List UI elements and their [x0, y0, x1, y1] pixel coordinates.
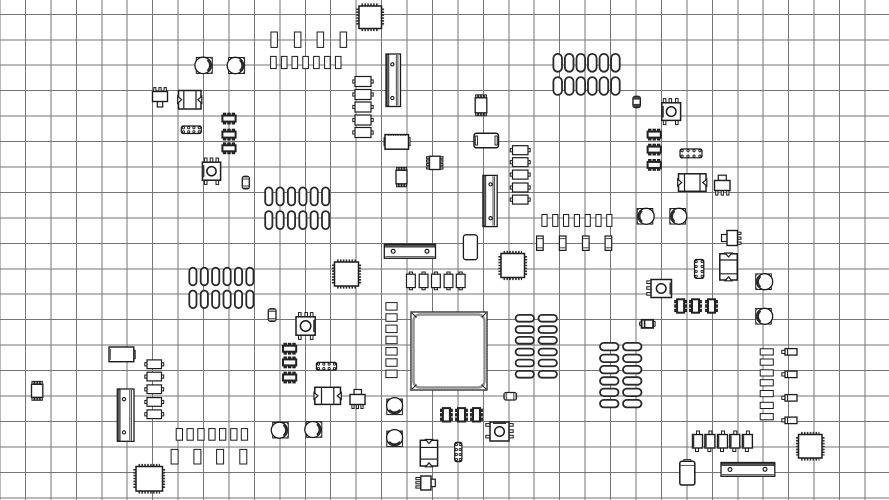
- resistor R44 (0603): [760, 402, 773, 408]
- resistor R8 (0805): [353, 77, 373, 87]
- connector J2 (8-pad footprint): [680, 149, 702, 158]
- IC U5 (QFP-32): [797, 433, 823, 459]
- capacitor C3 (electrolytic): [637, 208, 654, 224]
- resistor R22 (0805): [145, 385, 164, 394]
- diode D6 (MELF): [633, 96, 640, 107]
- IC U16 (SOT-23-6): [675, 299, 687, 312]
- capacitor C18 (0805): [510, 170, 530, 179]
- IC U1 (QFP-32): [358, 5, 383, 30]
- resistor R37 (0603): [386, 359, 397, 367]
- resistor R32 (0603): [386, 303, 397, 311]
- connector J10 (shielded): [721, 463, 775, 477]
- capacitor C10 (electrolytic): [387, 430, 403, 447]
- resistor R35 (0603): [386, 336, 397, 344]
- IC U22 (SOIC-8): [475, 95, 487, 116]
- transistor Q1 (SOT-223, pins up): [153, 88, 168, 107]
- resistor R15 (0603): [564, 215, 569, 227]
- crystal Y2 (cylindrical vertical): [463, 235, 477, 260]
- connector J15 (2x6 pad array): [600, 343, 642, 408]
- switch SW1 (tactile): [202, 158, 220, 184]
- capacitor C15 (0805): [340, 32, 347, 47]
- regulator Q3 (SOT-223, pins down): [350, 390, 365, 409]
- capacitor C9 (electrolytic): [387, 398, 403, 415]
- resistor R6 (0603): [325, 56, 331, 68]
- diode D11 (SOD): [782, 349, 797, 356]
- capacitor C16 (0805): [510, 146, 530, 155]
- capacitor C38 (tantalum polarized): [742, 431, 752, 452]
- diode D3 (molded package): [314, 387, 341, 404]
- switch SW5 (tactile): [647, 280, 672, 298]
- resistor R19 (0603): [607, 215, 612, 227]
- capacitor C23 (1206): [583, 236, 590, 250]
- capacitor C27 (tantalum): [217, 449, 224, 464]
- IC U8 (SOT-23-6): [222, 129, 235, 140]
- capacitor C36 (tantalum polarized): [718, 431, 728, 452]
- capacitor C34 (tantalum polarized): [693, 431, 703, 452]
- capacitor C37 (tantalum polarized): [730, 431, 740, 452]
- resistor R1 (0603): [271, 56, 277, 68]
- connector J1 (8-pad footprint): [181, 126, 201, 134]
- IC U18 (SOT-23-6): [706, 299, 718, 312]
- capacitor C35 (tantalum polarized): [705, 431, 715, 452]
- capacitor C7 (electrolytic): [271, 422, 288, 438]
- resistor R40 (0603): [760, 359, 773, 365]
- resistor R43 (0603): [760, 391, 773, 397]
- resistor R45 (0603): [760, 414, 773, 420]
- resistor R14 (0603): [553, 215, 558, 227]
- diode D4 (molded package): [720, 253, 738, 281]
- IC U4 (QFP-32): [135, 465, 164, 492]
- connector J12 (2x6 pad array): [189, 268, 253, 308]
- resistor R30 (0603): [231, 429, 237, 441]
- resistor R42 (0603): [760, 380, 773, 386]
- IC U23 (SOIC-8): [396, 167, 407, 187]
- connector J13 (2x6 pad array): [265, 187, 329, 229]
- resistor R41 (0603): [760, 370, 773, 376]
- IC U11 (SOT-23-6): [648, 144, 661, 155]
- transistor Q2 (SOT-223, pins down): [715, 175, 731, 195]
- transistor Q4 (SOT-89, pins right): [722, 231, 742, 246]
- resistor R31 (0603): [241, 429, 247, 441]
- connector J4 (8-pad footprint): [695, 260, 704, 279]
- IC U15 (SOT-23-6): [283, 372, 296, 383]
- resistor R3 (0603): [292, 56, 298, 68]
- resistor R2 (0603): [281, 56, 287, 68]
- diode D8 (MELF): [268, 309, 276, 322]
- resistor R26 (0603): [187, 429, 193, 441]
- resistor R25 (0603): [176, 429, 182, 441]
- switch SW4 (tactile): [486, 422, 513, 441]
- capacitor C22 (1206): [559, 236, 566, 250]
- diode D5 (molded package): [420, 440, 437, 467]
- diode D12 (SOD): [782, 371, 797, 378]
- capacitor C13 (0805): [294, 32, 301, 47]
- resistor R34 (0603): [386, 325, 397, 333]
- resistor R5 (0603): [314, 56, 320, 68]
- capacitor C30 (0805): [419, 272, 428, 290]
- IC U25 (SOIC-8): [427, 156, 444, 169]
- IC U7 (SOT-23-6): [222, 113, 235, 124]
- resistor R33 (0603): [386, 314, 397, 322]
- capacitor C8 (electrolytic): [305, 422, 322, 438]
- IC U19 (SOT-23-6): [441, 408, 453, 421]
- resistor R12 (0805): [353, 128, 373, 138]
- capacitor C12 (0805): [271, 32, 278, 47]
- connector J14 (2x6 pad array): [516, 315, 557, 378]
- resistor R9 (0805): [353, 90, 373, 100]
- resistor R7 (0603): [335, 56, 341, 68]
- diode D13 (SOD): [782, 395, 797, 402]
- capacitor C32 (0805): [444, 272, 453, 290]
- resistor R27 (0603): [198, 429, 204, 441]
- connector J11 (2x6 pad array): [553, 54, 619, 95]
- capacitor C5 (electrolytic): [756, 274, 773, 290]
- IC U24 (SOIC-8): [32, 381, 43, 400]
- IC U2 (QFP-32): [333, 261, 360, 288]
- IC U9 (SOT-23-6): [222, 143, 235, 154]
- resistor R39 (0603): [760, 349, 773, 355]
- IC U12 (SOT-23-6): [648, 160, 661, 171]
- connector J9 (shielded): [384, 244, 435, 258]
- switch SW3 (tactile): [296, 313, 315, 340]
- resistor R20 (0805): [145, 360, 164, 369]
- resistor R13 (0603): [542, 215, 547, 227]
- IC U3 (QFP-32): [500, 252, 526, 279]
- capacitor C21 (1206): [537, 236, 544, 250]
- connector J7 (header): [483, 175, 497, 226]
- capacitor C20 (0805): [510, 195, 530, 204]
- IC U10 (SOT-23-6): [648, 129, 661, 140]
- capacitor C26 (tantalum): [194, 449, 201, 464]
- capacitor C6 (electrolytic): [756, 308, 773, 324]
- resistor R10 (0805): [353, 102, 373, 112]
- resistor R17 (0603): [585, 215, 590, 227]
- capacitor C4 (electrolytic): [670, 208, 687, 224]
- capacitor C1 (electrolytic): [195, 57, 212, 73]
- capacitor C25 (tantalum): [171, 449, 178, 464]
- resistor R11 (0805): [353, 115, 373, 125]
- connector J5 (8-pad footprint): [455, 442, 462, 461]
- resistor R4 (0603): [303, 56, 309, 68]
- resistor R28 (0603): [209, 429, 215, 441]
- transistor Q5 (SOT-89, pins left): [416, 476, 435, 490]
- capacitor C14 (0805): [317, 32, 324, 47]
- IC U13 (SOT-23-6): [283, 343, 296, 354]
- resistor R24 (0805): [145, 410, 164, 419]
- resistor R23 (0805): [145, 398, 164, 407]
- diode D10 (SMA): [639, 320, 655, 328]
- capacitor C28 (tantalum): [240, 449, 247, 464]
- diode D9 (MELF): [504, 393, 517, 401]
- connector J8 (header): [117, 389, 134, 441]
- crystal Y1: [474, 133, 499, 148]
- capacitor C29 (0805): [407, 272, 416, 290]
- capacitor C2 (electrolytic): [227, 57, 244, 73]
- capacitor C33 (0805): [456, 272, 465, 290]
- connector J6 (header): [386, 54, 401, 107]
- diode D2 (molded package): [678, 174, 707, 192]
- capacitor C11 (cylindrical): [680, 460, 695, 485]
- inductor FL2 (cylindrical): [109, 347, 135, 362]
- switch SW2 (tactile): [662, 99, 681, 125]
- resistor R38 (0603): [386, 370, 397, 378]
- resistor R29 (0603): [220, 429, 226, 441]
- resistor R21 (0805): [145, 372, 164, 381]
- resistor R16 (0603): [574, 215, 579, 227]
- IC U6 (TQFP-144 main processor): [411, 312, 487, 390]
- IC U20 (SOT-23-6): [456, 408, 468, 421]
- diode D1 (molded package): [178, 91, 202, 110]
- connector J3 (8-pad footprint): [316, 362, 336, 370]
- diode D7 (MELF): [242, 176, 249, 189]
- capacitor C17 (0805): [510, 158, 530, 167]
- IC U17 (SOT-23-6): [690, 299, 702, 312]
- capacitor C31 (0805): [432, 272, 441, 290]
- inductor FL1 (cylindrical): [384, 135, 410, 150]
- capacitor C19 (0805): [510, 183, 530, 192]
- IC U14 (SOT-23-6): [283, 357, 296, 368]
- resistor R18 (0603): [596, 215, 601, 227]
- diode D14 (SOD): [782, 417, 797, 424]
- capacitor C24 (1206): [605, 236, 612, 250]
- resistor R36 (0603): [386, 348, 397, 356]
- IC U21 (SOT-23-6): [471, 408, 483, 421]
